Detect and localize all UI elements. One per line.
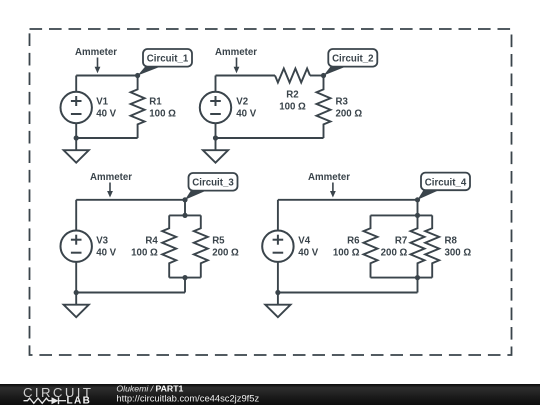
svg-text:V4: V4 [298, 235, 310, 246]
svg-text:R1: R1 [149, 96, 162, 107]
CircuitLab logo [23, 385, 93, 405]
wire parallel top bar [371, 214, 433, 216]
svg-text:200 Ω: 200 Ω [336, 109, 363, 120]
junction dot [182, 213, 187, 218]
svg-text:40 V: 40 V [96, 248, 116, 259]
svg-text:LAB: LAB [67, 395, 92, 405]
svg-text:R6: R6 [347, 235, 360, 246]
resistor R6 [364, 215, 378, 277]
voltage source V1 [75, 76, 77, 92]
svg-text:R8: R8 [445, 235, 458, 246]
wire [417, 278, 419, 293]
junction dot [182, 197, 187, 202]
svg-text:40 V: 40 V [96, 109, 116, 120]
ground [75, 138, 77, 150]
node Circuit_3 [185, 190, 209, 200]
footer bar [0, 384, 540, 405]
svg-text:Ammeter: Ammeter [215, 47, 257, 58]
svg-text:Circuit_1: Circuit_1 [147, 54, 189, 65]
wire [278, 199, 418, 201]
svg-text:Ammeter: Ammeter [90, 172, 132, 183]
resistor R7 [411, 215, 425, 277]
wire [76, 199, 185, 201]
node Circuit_1 [138, 66, 163, 76]
junction dot [415, 275, 420, 280]
svg-text:R3: R3 [336, 96, 349, 107]
junction dot [135, 73, 140, 78]
svg-text:300 Ω: 300 Ω [445, 248, 472, 259]
ground [75, 293, 77, 305]
svg-text:40 V: 40 V [236, 109, 256, 120]
wire [417, 200, 419, 216]
resistor R1 [131, 76, 145, 139]
svg-text:R7: R7 [395, 235, 407, 246]
junction dot [182, 275, 187, 280]
wire parallel top bar [169, 214, 201, 216]
ground [277, 293, 279, 305]
svg-text:R2: R2 [286, 90, 298, 101]
resistor R5 [194, 215, 208, 277]
wire parallel bottom bar [169, 277, 201, 279]
wire [184, 278, 186, 293]
svg-text:Circuit_4: Circuit_4 [425, 177, 467, 188]
node Circuit_2 [324, 66, 349, 76]
svg-text:100 Ω: 100 Ω [279, 102, 306, 113]
svg-text:100 Ω: 100 Ω [333, 248, 360, 259]
svg-text:Circuit_2: Circuit_2 [332, 54, 373, 65]
svg-text:Ammeter: Ammeter [308, 172, 350, 183]
wire [278, 292, 418, 294]
svg-text:200 Ω: 200 Ω [381, 248, 408, 259]
svg-text:200 Ω: 200 Ω [212, 248, 239, 259]
svg-text:V2: V2 [236, 96, 248, 107]
wire [76, 75, 137, 77]
node Circuit_4 [418, 189, 442, 200]
resistor R8 [425, 215, 439, 277]
junction dot [74, 290, 79, 295]
svg-text:Circuit_3: Circuit_3 [192, 178, 234, 189]
resistor R4 [162, 215, 176, 277]
svg-text:R5: R5 [212, 235, 225, 246]
resistor R3 [317, 76, 331, 139]
wire [184, 200, 186, 216]
junction dot [415, 197, 420, 202]
svg-text:100 Ω: 100 Ω [149, 109, 176, 120]
junction dot [415, 213, 420, 218]
wire parallel bottom bar [371, 277, 433, 279]
junction dot [74, 135, 79, 140]
svg-text:100 Ω: 100 Ω [131, 248, 158, 259]
wire [310, 75, 324, 77]
wire [76, 137, 137, 139]
junction dot [275, 290, 280, 295]
junction dot [321, 73, 326, 78]
ground [215, 138, 217, 150]
svg-text:V1: V1 [96, 96, 108, 107]
wire [216, 137, 324, 139]
junction dot [213, 135, 218, 140]
voltage source V3 [75, 200, 77, 231]
voltage source V2 [215, 76, 217, 92]
voltage source V4 [277, 200, 279, 231]
svg-text:40 V: 40 V [298, 248, 318, 259]
svg-text:Ammeter: Ammeter [75, 47, 117, 58]
wire [216, 75, 276, 77]
wire [76, 292, 185, 294]
svg-text:http://circuitlab.com/ce44sc2j: http://circuitlab.com/ce44sc2jz9f5z [116, 392, 259, 403]
svg-text:V3: V3 [96, 235, 108, 246]
svg-text:R4: R4 [145, 235, 158, 246]
resistor R2 [275, 69, 310, 83]
